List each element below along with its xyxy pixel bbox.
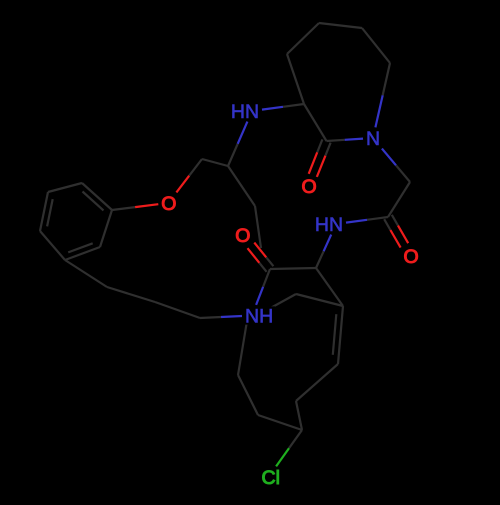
label Oe: O <box>159 194 177 212</box>
bond G-A <box>296 294 343 306</box>
bond C2-N2 <box>367 217 388 220</box>
svg-text:O: O <box>161 193 176 215</box>
bond CV-Cl <box>289 430 302 448</box>
label N3: NH <box>243 306 275 324</box>
bond Cu-CH <box>202 159 228 166</box>
bond C3-N3 <box>263 269 270 287</box>
bond N1-CA1 <box>262 107 283 110</box>
bond CG-CB <box>287 23 319 54</box>
label Nr: N <box>364 129 382 147</box>
bond Z-X <box>107 287 155 302</box>
bond P1-Oe <box>112 207 135 210</box>
bond C1-Nr <box>327 140 345 141</box>
svg-text:NH: NH <box>245 306 273 328</box>
bond P6-P1 <box>100 210 112 247</box>
bond P2-P3 <box>48 183 82 192</box>
bond CD-CG <box>319 23 362 28</box>
label O3: O <box>233 226 251 244</box>
label O2: O <box>402 247 420 265</box>
bond N2-a2 <box>324 235 332 252</box>
bond D-E <box>238 375 258 415</box>
label Cl: Cl <box>260 468 284 486</box>
bond CS1-CS2 <box>255 206 261 248</box>
bond CV-D <box>258 415 302 430</box>
bond CH2n-C2 <box>388 182 410 217</box>
bond CL1-Z <box>155 302 200 318</box>
bond P1-P2 <box>82 183 112 210</box>
bond CE-CD <box>362 28 390 63</box>
bond Nr-CE <box>375 95 382 127</box>
bond C6-CV <box>296 401 302 430</box>
bond E-F <box>238 321 247 375</box>
svg-text:HN: HN <box>231 101 259 123</box>
bond A-B <box>338 306 343 364</box>
bond P3-P4 <box>40 192 48 231</box>
bond C1-O1 <box>317 139 322 152</box>
svg-text:O: O <box>404 246 419 268</box>
bond P5-P6 <box>65 247 100 260</box>
bond B-C6 <box>296 364 338 401</box>
bond a2-A <box>316 268 343 306</box>
bond F-G <box>247 294 296 321</box>
label O1: O <box>300 177 318 195</box>
svg-text:Cl: Cl <box>262 467 280 489</box>
svg-text:HN: HN <box>315 214 343 236</box>
bond Nr-CH2n <box>382 149 396 166</box>
bond Oe-Cu <box>176 176 189 193</box>
bond C2-O2 <box>384 219 390 230</box>
bond C3-O3 <box>266 257 273 266</box>
bond CB-CA1 <box>287 54 304 104</box>
svg-text:N: N <box>366 128 380 150</box>
bond CH-CS1 <box>228 166 255 206</box>
label N2: HN <box>313 215 345 233</box>
bond P4-P5 <box>40 231 65 260</box>
svg-text:O: O <box>235 225 250 247</box>
bond X-P5 <box>65 260 107 287</box>
bond a2-C3 <box>270 268 316 269</box>
bond CH-N1 <box>228 144 238 166</box>
svg-text:O: O <box>302 176 317 198</box>
bond CA1-C1 <box>304 104 327 141</box>
bond N3-CL1 <box>221 316 242 317</box>
label N1: HN <box>229 102 261 120</box>
